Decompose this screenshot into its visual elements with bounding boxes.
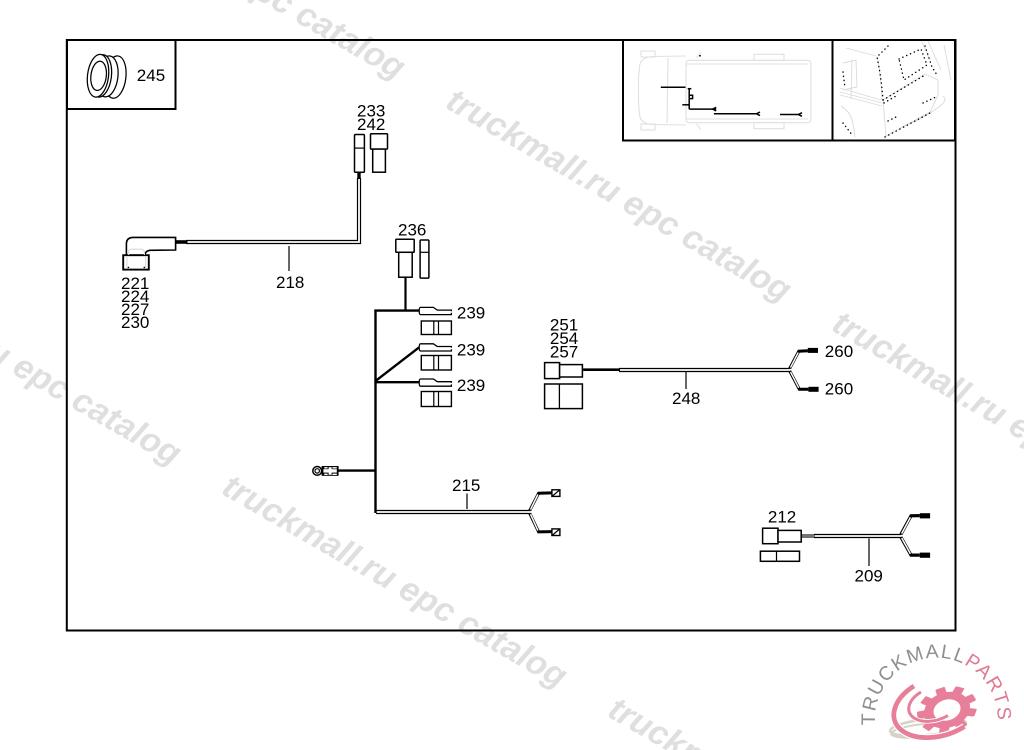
svg-text:260: 260 — [825, 380, 853, 399]
svg-text:257: 257 — [550, 343, 578, 362]
svg-text:215: 215 — [452, 476, 480, 495]
svg-text:239: 239 — [457, 341, 485, 360]
svg-text:209: 209 — [855, 566, 883, 585]
svg-text:239: 239 — [457, 376, 485, 395]
svg-text:236: 236 — [398, 220, 426, 239]
svg-text:218: 218 — [276, 273, 304, 292]
svg-text:212: 212 — [768, 508, 796, 527]
svg-text:230: 230 — [121, 313, 149, 332]
svg-text:239: 239 — [457, 303, 485, 322]
svg-text:260: 260 — [825, 342, 853, 361]
svg-text:245: 245 — [137, 66, 165, 85]
svg-text:242: 242 — [357, 115, 385, 134]
svg-text:248: 248 — [672, 389, 700, 408]
